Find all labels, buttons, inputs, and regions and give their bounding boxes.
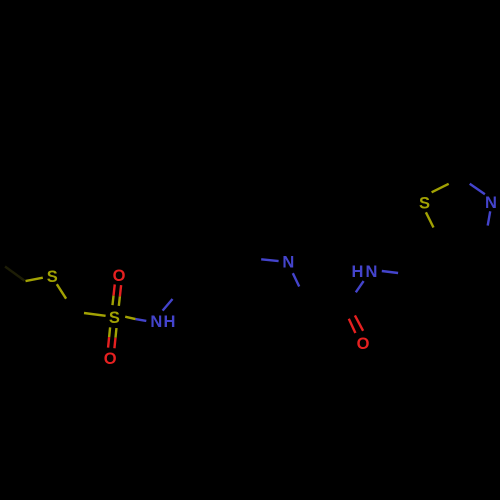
svg-text:H: H [351,263,363,281]
svg-text:O: O [357,335,370,353]
svg-text:S: S [419,195,430,213]
svg-text:S: S [109,309,120,327]
svg-text:O: O [104,350,117,368]
svg-text:O: O [113,267,126,285]
svg-text:S: S [47,268,58,286]
svg-text:H: H [164,313,176,331]
svg-text:N: N [365,263,377,281]
svg-text:N: N [282,254,294,272]
svg-text:N: N [485,194,497,212]
svg-text:N: N [150,313,162,331]
